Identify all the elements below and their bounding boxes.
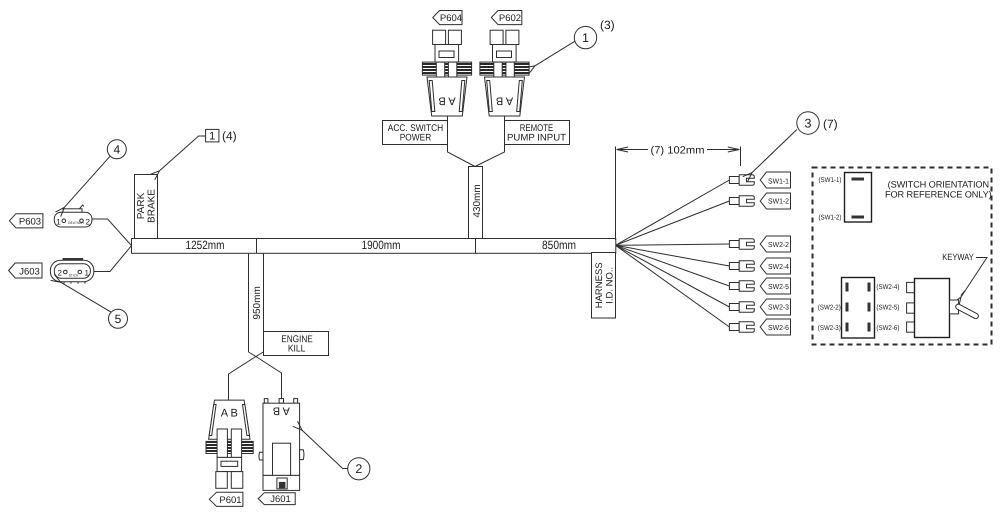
svg-text:1: 1 — [85, 269, 90, 278]
svg-text:SW1-2: SW1-2 — [768, 197, 789, 206]
svg-text:(SW1-2): (SW1-2) — [819, 214, 842, 222]
svg-text:KEYWAY: KEYWAY — [942, 252, 974, 262]
svg-text:950mm: 950mm — [252, 286, 263, 319]
svg-text:2: 2 — [86, 218, 91, 227]
svg-text:POWER: POWER — [400, 132, 432, 143]
svg-text:(SW2-3): (SW2-3) — [818, 324, 841, 332]
svg-text:(SW2-2): (SW2-2) — [818, 304, 841, 312]
svg-text:J601: J601 — [270, 494, 291, 505]
svg-text:STICH: STICH — [69, 274, 79, 278]
svg-text:P602: P602 — [499, 13, 521, 24]
svg-text:1: 1 — [56, 218, 61, 227]
svg-text:(7) 102mm: (7) 102mm — [651, 144, 705, 156]
svg-text:1252mm: 1252mm — [186, 238, 225, 252]
svg-text:HARNESS: HARNESS — [594, 262, 605, 308]
svg-text:BRAKE: BRAKE — [147, 189, 158, 223]
svg-text:KILL: KILL — [288, 343, 306, 354]
svg-text:850mm: 850mm — [542, 238, 576, 252]
svg-text:SW2-6: SW2-6 — [768, 323, 789, 332]
svg-text:SW2-3: SW2-3 — [768, 303, 789, 312]
svg-text:1900mm: 1900mm — [362, 238, 401, 252]
svg-text:A B: A B — [438, 95, 455, 107]
svg-text:(SW2-5): (SW2-5) — [876, 304, 899, 312]
svg-text:PARK: PARK — [136, 192, 147, 219]
svg-text:2: 2 — [58, 269, 63, 278]
svg-text:FOR REFERENCE ONLY): FOR REFERENCE ONLY) — [885, 190, 992, 200]
svg-text:SW2-4: SW2-4 — [768, 262, 789, 271]
svg-text:1: 1 — [582, 31, 589, 45]
svg-text:I.D. NO..: I.D. NO.. — [605, 267, 616, 304]
svg-text:(SW2-6): (SW2-6) — [876, 324, 899, 332]
svg-text:SW2-2: SW2-2 — [768, 240, 789, 249]
svg-text:(7): (7) — [823, 117, 838, 131]
svg-text:4: 4 — [113, 143, 120, 157]
svg-text:2: 2 — [355, 462, 362, 476]
svg-text:J603: J603 — [19, 267, 40, 278]
svg-text:PUMP INPUT: PUMP INPUT — [507, 132, 566, 143]
svg-text:(SW1-1): (SW1-1) — [819, 176, 842, 184]
svg-text:P603: P603 — [19, 216, 41, 227]
svg-text:(4): (4) — [222, 129, 237, 143]
svg-text:SW1-1: SW1-1 — [768, 176, 789, 185]
svg-text:(SW2-4): (SW2-4) — [876, 283, 899, 291]
svg-text:A B: A B — [221, 408, 238, 420]
svg-text:A B: A B — [273, 405, 290, 417]
svg-text:3: 3 — [805, 116, 812, 130]
svg-text:(SWITCH ORIENTATION: (SWITCH ORIENTATION — [888, 180, 989, 190]
svg-text:(3): (3) — [600, 18, 615, 32]
svg-text:1: 1 — [209, 130, 215, 142]
svg-text:430mm: 430mm — [472, 184, 483, 217]
svg-text:P604: P604 — [440, 13, 462, 24]
svg-text:5: 5 — [115, 312, 122, 326]
svg-text:P601: P601 — [219, 495, 241, 506]
svg-text:SW2-5: SW2-5 — [768, 282, 789, 291]
